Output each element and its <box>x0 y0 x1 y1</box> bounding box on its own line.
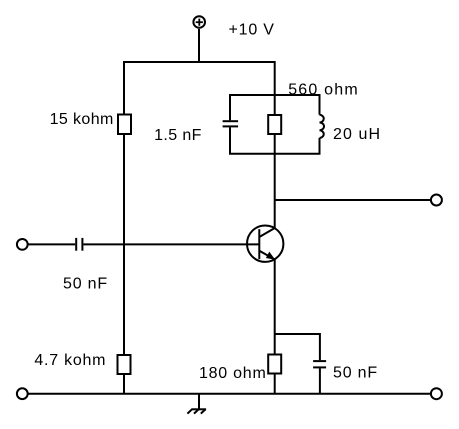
wire bypass lower <box>319 368 321 393</box>
capacitor C3 50 nF plates <box>313 360 326 362</box>
wire input left <box>28 243 75 245</box>
transistor Q1 <box>247 226 283 262</box>
capacitor C2 50 nF plates <box>75 238 77 251</box>
power terminal +10V <box>193 16 205 28</box>
resistor R4 180 ohm <box>268 355 281 374</box>
resistor R3 560 ohm <box>268 115 281 134</box>
resistor R2 4.7 kohm <box>118 355 131 374</box>
capacitor C1 1.5 nF plates <box>223 120 239 122</box>
wire emitter branch to bypass <box>275 334 320 360</box>
wire output tap <box>275 199 431 201</box>
wire left branch middle <box>123 134 125 355</box>
wire left branch lower <box>123 374 125 394</box>
ground terminal right <box>431 388 442 399</box>
wire top rail with left and main branches <box>124 62 275 115</box>
svg-text:15 kohm: 15 kohm <box>50 111 114 128</box>
svg-text:+10 V: +10 V <box>229 21 275 38</box>
inductor L1 20 uH coils <box>320 115 325 138</box>
svg-text:560 ohm: 560 ohm <box>288 81 359 98</box>
svg-text:20 uH: 20 uH <box>333 126 381 143</box>
svg-text:1.5 nF: 1.5 nF <box>154 127 202 144</box>
output terminal <box>431 195 442 206</box>
input terminal <box>17 239 28 250</box>
wire base <box>83 243 259 245</box>
wire collector vertical <box>274 134 276 228</box>
svg-text:50 nF: 50 nF <box>63 276 108 293</box>
wire bottom rail <box>28 393 431 395</box>
ground <box>187 394 206 414</box>
resistor R1 15 kohm <box>118 115 131 135</box>
svg-text:50 nF: 50 nF <box>333 365 378 382</box>
svg-text:4.7 kohm: 4.7 kohm <box>34 352 106 369</box>
svg-text:180 ohm: 180 ohm <box>199 365 267 382</box>
wire tank bottom <box>230 127 320 153</box>
wire emitter lower <box>274 374 276 394</box>
wire emitter vertical <box>274 259 276 354</box>
wire tank top <box>230 95 320 120</box>
ground terminal left <box>17 388 28 399</box>
wire power stub <box>198 29 200 62</box>
